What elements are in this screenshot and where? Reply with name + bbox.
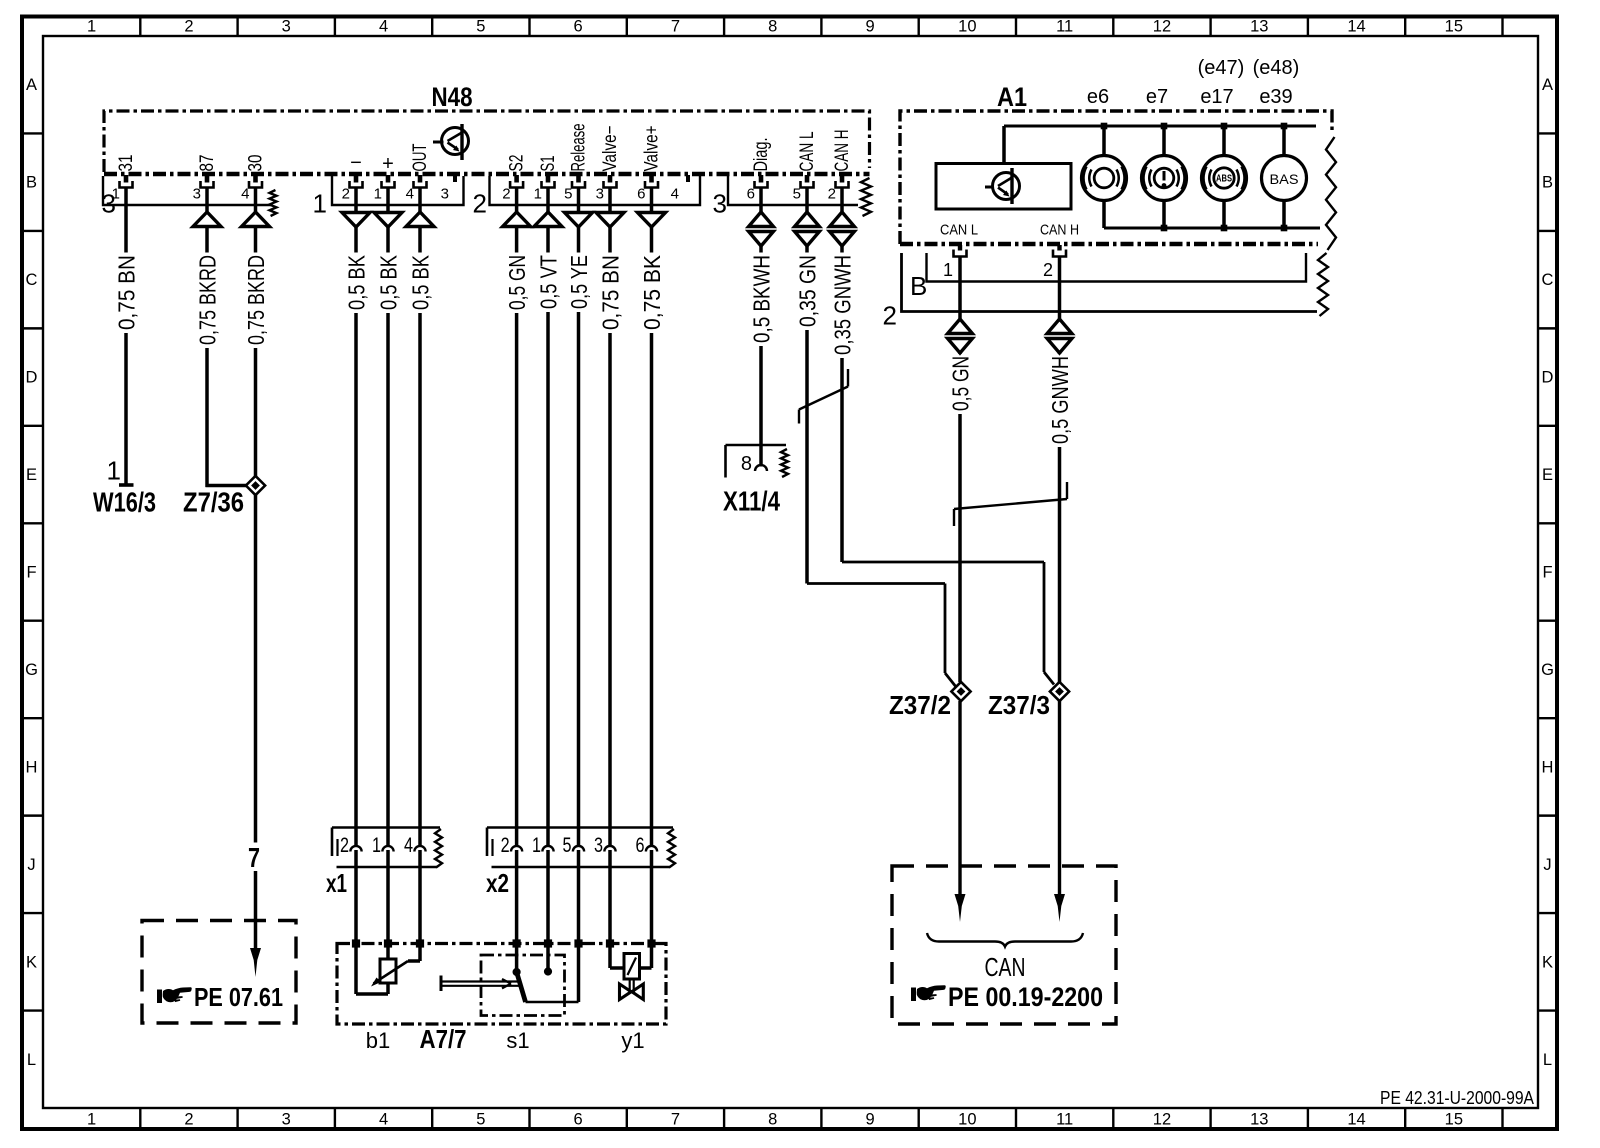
lamp lead	[1102, 126, 1106, 156]
svg-text:X11/4: X11/4	[723, 486, 780, 517]
svg-text:K: K	[1542, 953, 1553, 971]
wire 0,5 VT pin1(S1) to x2.1	[536, 188, 562, 847]
N48 pin 5 Release	[564, 124, 589, 203]
junction	[416, 939, 424, 947]
svg-text:BAS: BAS	[1270, 171, 1299, 187]
svg-text:2: 2	[342, 186, 350, 203]
svg-text:A7/7: A7/7	[420, 1024, 467, 1054]
svg-text:4: 4	[379, 18, 388, 36]
arrow out pin S1	[534, 212, 562, 227]
connector x2	[486, 828, 675, 899]
svg-text:CAN H: CAN H	[1040, 223, 1079, 239]
wire 0,5 BK pin4(OUT) to x1.4	[408, 188, 434, 847]
svg-text:H: H	[1542, 758, 1554, 776]
svg-text:4: 4	[406, 186, 414, 203]
svg-text:1: 1	[532, 834, 541, 857]
svg-text:8: 8	[741, 453, 752, 475]
N48 pin 4 stub	[671, 175, 688, 203]
svg-text:6: 6	[637, 186, 645, 203]
N48 pin 1 S1	[534, 156, 559, 203]
junction	[574, 939, 582, 947]
torn edge right of A1	[1326, 137, 1336, 250]
svg-text:9: 9	[865, 1111, 874, 1129]
svg-text:7: 7	[671, 18, 680, 36]
svg-text:10: 10	[958, 1111, 976, 1129]
svg-text:CAN L: CAN L	[940, 223, 978, 239]
arrow in pin plus	[374, 213, 402, 228]
N48 connector 1 bracket (pins 2,1,4,3)	[313, 176, 464, 219]
svg-text:1: 1	[107, 456, 121, 486]
sleeve Z37/2	[889, 682, 971, 720]
N48 pin 2 S2	[502, 155, 527, 203]
svg-text:13: 13	[1250, 1111, 1268, 1129]
svg-text:A1: A1	[997, 82, 1027, 112]
svg-text:13: 13	[1250, 18, 1268, 36]
N48 pin 3 stub	[441, 175, 455, 203]
svg-text:s1: s1	[506, 1028, 529, 1053]
svg-text:5: 5	[564, 186, 572, 203]
arrow in pin Release	[565, 213, 593, 228]
wire x1.2 to b1	[354, 850, 358, 944]
svg-text:S1: S1	[538, 156, 559, 172]
sensor b1 (pressure sensor)	[356, 944, 420, 1054]
svg-text:0,5 GN: 0,5 GN	[504, 255, 530, 310]
svg-text:C: C	[1542, 271, 1554, 289]
svg-text:PE 00.19-2200: PE 00.19-2200	[948, 982, 1103, 1012]
twisted pair mark N48 CAN wires	[799, 369, 848, 424]
svg-text:Z7/36: Z7/36	[183, 487, 244, 518]
svg-text:2: 2	[1043, 260, 1053, 280]
solenoid valve y1	[610, 944, 652, 1054]
svg-text:e39: e39	[1259, 86, 1292, 108]
svg-text:6: 6	[574, 18, 583, 36]
wire 0,5 BK pin1(+) to x1.1	[376, 188, 402, 847]
svg-text:0,5 BK: 0,5 BK	[408, 254, 434, 310]
svg-text:0,75 BN: 0,75 BN	[114, 255, 140, 330]
svg-text:CAN L: CAN L	[797, 132, 818, 172]
wire x2.1 to s1	[546, 850, 550, 944]
svg-text:31: 31	[116, 155, 137, 172]
junction	[1161, 123, 1168, 130]
svg-text:F: F	[26, 564, 36, 582]
svg-text:2: 2	[883, 301, 897, 331]
svg-text:(e48): (e48)	[1253, 57, 1300, 79]
svg-text:PE 07.61: PE 07.61	[194, 982, 283, 1012]
svg-text:6: 6	[747, 186, 755, 203]
svg-text:L: L	[1543, 1051, 1552, 1069]
svg-text:11: 11	[1056, 1111, 1073, 1129]
svg-text:Valve+: Valve+	[642, 126, 663, 172]
wire 0,35 GNWH CAN H from N48	[830, 188, 1055, 685]
wire 0,35 GN CAN L from N48	[795, 188, 957, 688]
svg-text:G: G	[25, 661, 38, 679]
svg-text:5: 5	[476, 1111, 485, 1129]
svg-text:Diag.: Diag.	[751, 138, 772, 172]
svg-text:N48: N48	[432, 82, 473, 112]
ground W16/3	[93, 456, 156, 518]
svg-text:ABS: ABS	[1216, 174, 1232, 185]
N48 connector 2 bracket (pins 2,1,5,3,6,4)	[473, 176, 700, 219]
N48 pin 3 Valve-	[596, 126, 621, 203]
svg-text:8: 8	[768, 18, 777, 36]
svg-text:10: 10	[958, 18, 976, 36]
A1 lamp return bus	[1104, 227, 1320, 230]
junction	[352, 939, 360, 947]
junction	[1101, 123, 1108, 130]
svg-text:0,75 BKRD: 0,75 BKRD	[195, 255, 221, 345]
svg-text:4: 4	[241, 186, 249, 203]
svg-text:W16/3: W16/3	[93, 487, 156, 518]
reference box CAN PE 00.19-2200	[892, 866, 1116, 1024]
svg-text:C: C	[26, 271, 38, 289]
wire 0,5 BK pin2(-) to x1.2	[344, 188, 370, 847]
N48 pin 6 Valve+	[637, 126, 662, 203]
svg-text:b1: b1	[366, 1028, 390, 1053]
junction	[1221, 123, 1228, 130]
transistor symbol inside N48	[433, 124, 469, 160]
svg-text:3: 3	[282, 18, 291, 36]
twisted pair mark A1 CAN wires	[954, 482, 1067, 526]
A1 internal CAN controller	[936, 126, 1079, 239]
arrow out pin OUT	[406, 212, 434, 227]
N48 pin 3 terminal 87	[193, 155, 218, 203]
wire 0,75 BKRD pin87 to Z7/36	[195, 188, 247, 488]
N48 pin 2 CAN H	[828, 130, 853, 203]
svg-text:12: 12	[1153, 1111, 1171, 1129]
svg-text:e17: e17	[1200, 86, 1233, 108]
junction	[647, 939, 655, 947]
junction	[544, 939, 552, 947]
wire x2.6 to y1	[650, 850, 654, 944]
svg-text:0,5 BK: 0,5 BK	[344, 254, 370, 310]
arrow both A1 CAN H	[1047, 319, 1072, 353]
torn edge mark right of N48	[861, 178, 871, 216]
arrow in pin Valve-	[596, 213, 624, 228]
wire x2.5 to s1	[577, 850, 581, 944]
arrow out pin 30	[242, 212, 270, 227]
connector X11/4 pin 8	[723, 445, 788, 517]
arrow both pin Diag.	[749, 212, 774, 227]
indicator lamp e7 brake wear	[1142, 86, 1187, 201]
svg-text:6: 6	[574, 1111, 583, 1129]
svg-text:E: E	[1542, 466, 1553, 484]
svg-text:2: 2	[184, 18, 193, 36]
svg-text:0,75 BN: 0,75 BN	[598, 255, 624, 330]
lamp lead	[1282, 126, 1286, 156]
svg-text:0,35 GN: 0,35 GN	[795, 255, 821, 327]
wire 0,5 GNWH A1 pin2 to CAN	[1047, 257, 1073, 922]
wire 0,75 BN pin31 to W16/3	[114, 188, 140, 485]
indicator lamp e39 BAS	[1253, 57, 1307, 201]
svg-text:−: −	[350, 152, 362, 174]
junction	[384, 939, 392, 947]
svg-text:K: K	[26, 953, 37, 971]
svg-text:1: 1	[112, 186, 120, 203]
lamp lead	[1162, 126, 1166, 156]
svg-text:+: +	[382, 153, 394, 175]
control unit N48 box	[104, 82, 870, 174]
svg-text:0,5 YE: 0,5 YE	[566, 255, 592, 309]
hydraulic unit A7/7 box	[337, 944, 666, 1055]
svg-text:2: 2	[502, 186, 510, 203]
svg-text:H: H	[26, 758, 38, 776]
sleeve Z7/36	[183, 476, 265, 518]
N48 pin 1 plus	[374, 175, 395, 203]
svg-text:1: 1	[313, 189, 327, 219]
wire x2.2 to s1	[515, 850, 519, 944]
switch s1	[441, 944, 579, 1003]
junction	[606, 939, 614, 947]
svg-text:7: 7	[248, 842, 260, 873]
arrow out pin S2	[503, 212, 531, 227]
svg-text:2: 2	[473, 189, 487, 219]
svg-text:3: 3	[282, 1111, 291, 1129]
instrument cluster A1 box	[900, 82, 1332, 244]
svg-text:2: 2	[340, 834, 349, 857]
svg-text:0,5 GN: 0,5 GN	[948, 356, 974, 411]
svg-text:Z37/2: Z37/2	[889, 690, 951, 720]
connector x1	[326, 828, 442, 899]
svg-text:e7: e7	[1146, 86, 1168, 108]
svg-text:x1: x1	[326, 868, 347, 898]
svg-text:OUT: OUT	[410, 143, 431, 171]
svg-text:1: 1	[534, 186, 542, 203]
svg-text:4: 4	[404, 834, 413, 857]
junction	[1281, 225, 1288, 232]
svg-text:Z37/3: Z37/3	[988, 690, 1050, 720]
svg-text:87: 87	[197, 155, 218, 172]
svg-text:1: 1	[943, 260, 953, 280]
svg-text:2: 2	[184, 1111, 193, 1129]
lamp lead	[1222, 126, 1226, 156]
N48 connector 3 bracket (pins 6,5,2)	[713, 176, 858, 219]
svg-text:3: 3	[594, 834, 603, 857]
svg-text:6: 6	[636, 834, 645, 857]
svg-text:J: J	[1543, 856, 1551, 874]
wire x1.4 to b1 wiper	[418, 850, 422, 944]
svg-text:12: 12	[1153, 18, 1171, 36]
svg-text:B: B	[1542, 174, 1553, 192]
svg-text:3: 3	[441, 186, 449, 203]
arrow out pin 87	[193, 212, 221, 227]
svg-text:5: 5	[793, 186, 801, 203]
arrow both pin CAN L	[795, 212, 820, 227]
svg-text:PE 42.31-U-2000-99A: PE 42.31-U-2000-99A	[1380, 1088, 1534, 1108]
svg-text:1: 1	[87, 1111, 96, 1129]
svg-text:D: D	[26, 369, 38, 387]
wire 0,5 BKWH Diag. to X11/4	[749, 188, 775, 467]
N48 pin 4 OUT	[406, 143, 431, 202]
wire 0,5 GN A1 pin1 to CAN	[948, 257, 974, 922]
svg-text:5: 5	[476, 18, 485, 36]
svg-text:A: A	[1542, 76, 1553, 94]
svg-text:y1: y1	[621, 1028, 644, 1053]
svg-text:4: 4	[671, 186, 679, 203]
svg-text:(e47): (e47)	[1198, 57, 1245, 79]
svg-text:2: 2	[501, 834, 510, 857]
svg-text:E: E	[26, 466, 37, 484]
svg-text:14: 14	[1347, 1111, 1365, 1129]
svg-text:1: 1	[374, 186, 382, 203]
N48 pin 5 CAN L	[793, 132, 818, 203]
svg-text:CAN: CAN	[985, 952, 1026, 982]
N48 connector 3 bracket (pins 1,3,4)	[102, 176, 277, 219]
svg-text:4: 4	[379, 1111, 388, 1129]
N48 pin 4 terminal 30	[241, 155, 266, 203]
A1 pin 1	[943, 245, 967, 280]
svg-text:0,5 GNWH: 0,5 GNWH	[1047, 356, 1073, 444]
svg-text:J: J	[27, 856, 35, 874]
N48 pin 2 minus	[342, 175, 363, 203]
svg-text:G: G	[1541, 661, 1554, 679]
svg-text:15: 15	[1445, 18, 1463, 36]
indicator lamp e17 ABS	[1198, 57, 1247, 201]
svg-text:2: 2	[828, 186, 836, 203]
svg-text:0,75 BK: 0,75 BK	[639, 254, 665, 330]
wire 0,75 BK pin6 to x2.6	[639, 188, 665, 847]
svg-text:0,5 VT: 0,5 VT	[536, 255, 562, 309]
svg-text:11: 11	[1056, 18, 1073, 36]
arrow in pin Valve+	[638, 213, 666, 228]
sleeve Z37/3	[988, 682, 1069, 720]
A1 pin 2	[1043, 245, 1066, 280]
A1 plug B bracket	[910, 253, 1306, 301]
svg-text:15: 15	[1445, 1111, 1463, 1129]
svg-text:L: L	[27, 1051, 36, 1069]
N48 pin 6 Diag.	[747, 138, 772, 203]
svg-text:CAN H: CAN H	[832, 130, 853, 172]
A1 connector 2 bracket	[883, 253, 1317, 331]
svg-text:8: 8	[768, 1111, 777, 1129]
wire x1.1 to b1	[386, 850, 390, 944]
svg-text:14: 14	[1347, 18, 1365, 36]
wire x2.3 to y1	[608, 850, 612, 944]
reference box PE 07.61	[142, 921, 296, 1024]
junction	[1161, 225, 1168, 232]
junction	[513, 939, 521, 947]
wire 0,75 BKRD pin30 to PE 07.61	[243, 188, 269, 978]
svg-text:Valve−: Valve−	[600, 126, 621, 172]
svg-text:B: B	[26, 174, 37, 192]
svg-text:B: B	[910, 271, 927, 301]
svg-text:3: 3	[193, 186, 201, 203]
svg-text:0,5 BKWH: 0,5 BKWH	[749, 255, 775, 343]
wire 0,5 YE pin5 to x2.5	[566, 188, 592, 847]
arrow in pin minus	[342, 213, 370, 228]
N48 pin 1 terminal 31	[112, 155, 137, 203]
svg-text:Release: Release	[569, 124, 590, 172]
svg-text:7: 7	[671, 1111, 680, 1129]
svg-text:e6: e6	[1087, 86, 1109, 108]
svg-text:9: 9	[865, 18, 874, 36]
svg-text:3: 3	[713, 189, 727, 219]
svg-text:30: 30	[246, 155, 267, 172]
wire 0,75 BN pin3 to x2.3	[598, 188, 624, 847]
switch s1 box	[481, 955, 565, 1053]
indicator lamp e6 brake warning	[1082, 86, 1127, 201]
svg-text:1: 1	[87, 18, 96, 36]
arrow both A1 CAN L	[948, 319, 973, 353]
svg-text:D: D	[1542, 369, 1554, 387]
svg-text:0,75 BKRD: 0,75 BKRD	[243, 255, 269, 345]
svg-text:A: A	[26, 76, 37, 94]
junction	[1281, 123, 1288, 130]
A1 lamp supply bus	[1004, 125, 1316, 128]
svg-text:x2: x2	[486, 868, 509, 898]
junction	[1221, 225, 1228, 232]
svg-text:5: 5	[563, 834, 572, 857]
svg-text:S2: S2	[507, 155, 528, 172]
svg-text:3: 3	[596, 186, 604, 203]
wire 0,5 GN pin2(S2) to x2.2	[504, 188, 530, 847]
svg-text:0,5 BK: 0,5 BK	[376, 254, 402, 310]
svg-text:1: 1	[372, 834, 381, 857]
svg-text:0,35 GNWH: 0,35 GNWH	[830, 255, 856, 355]
torn edge right of A1 brackets	[1318, 253, 1328, 316]
arrow both pin CAN H	[830, 212, 855, 227]
svg-text:F: F	[1542, 564, 1552, 582]
